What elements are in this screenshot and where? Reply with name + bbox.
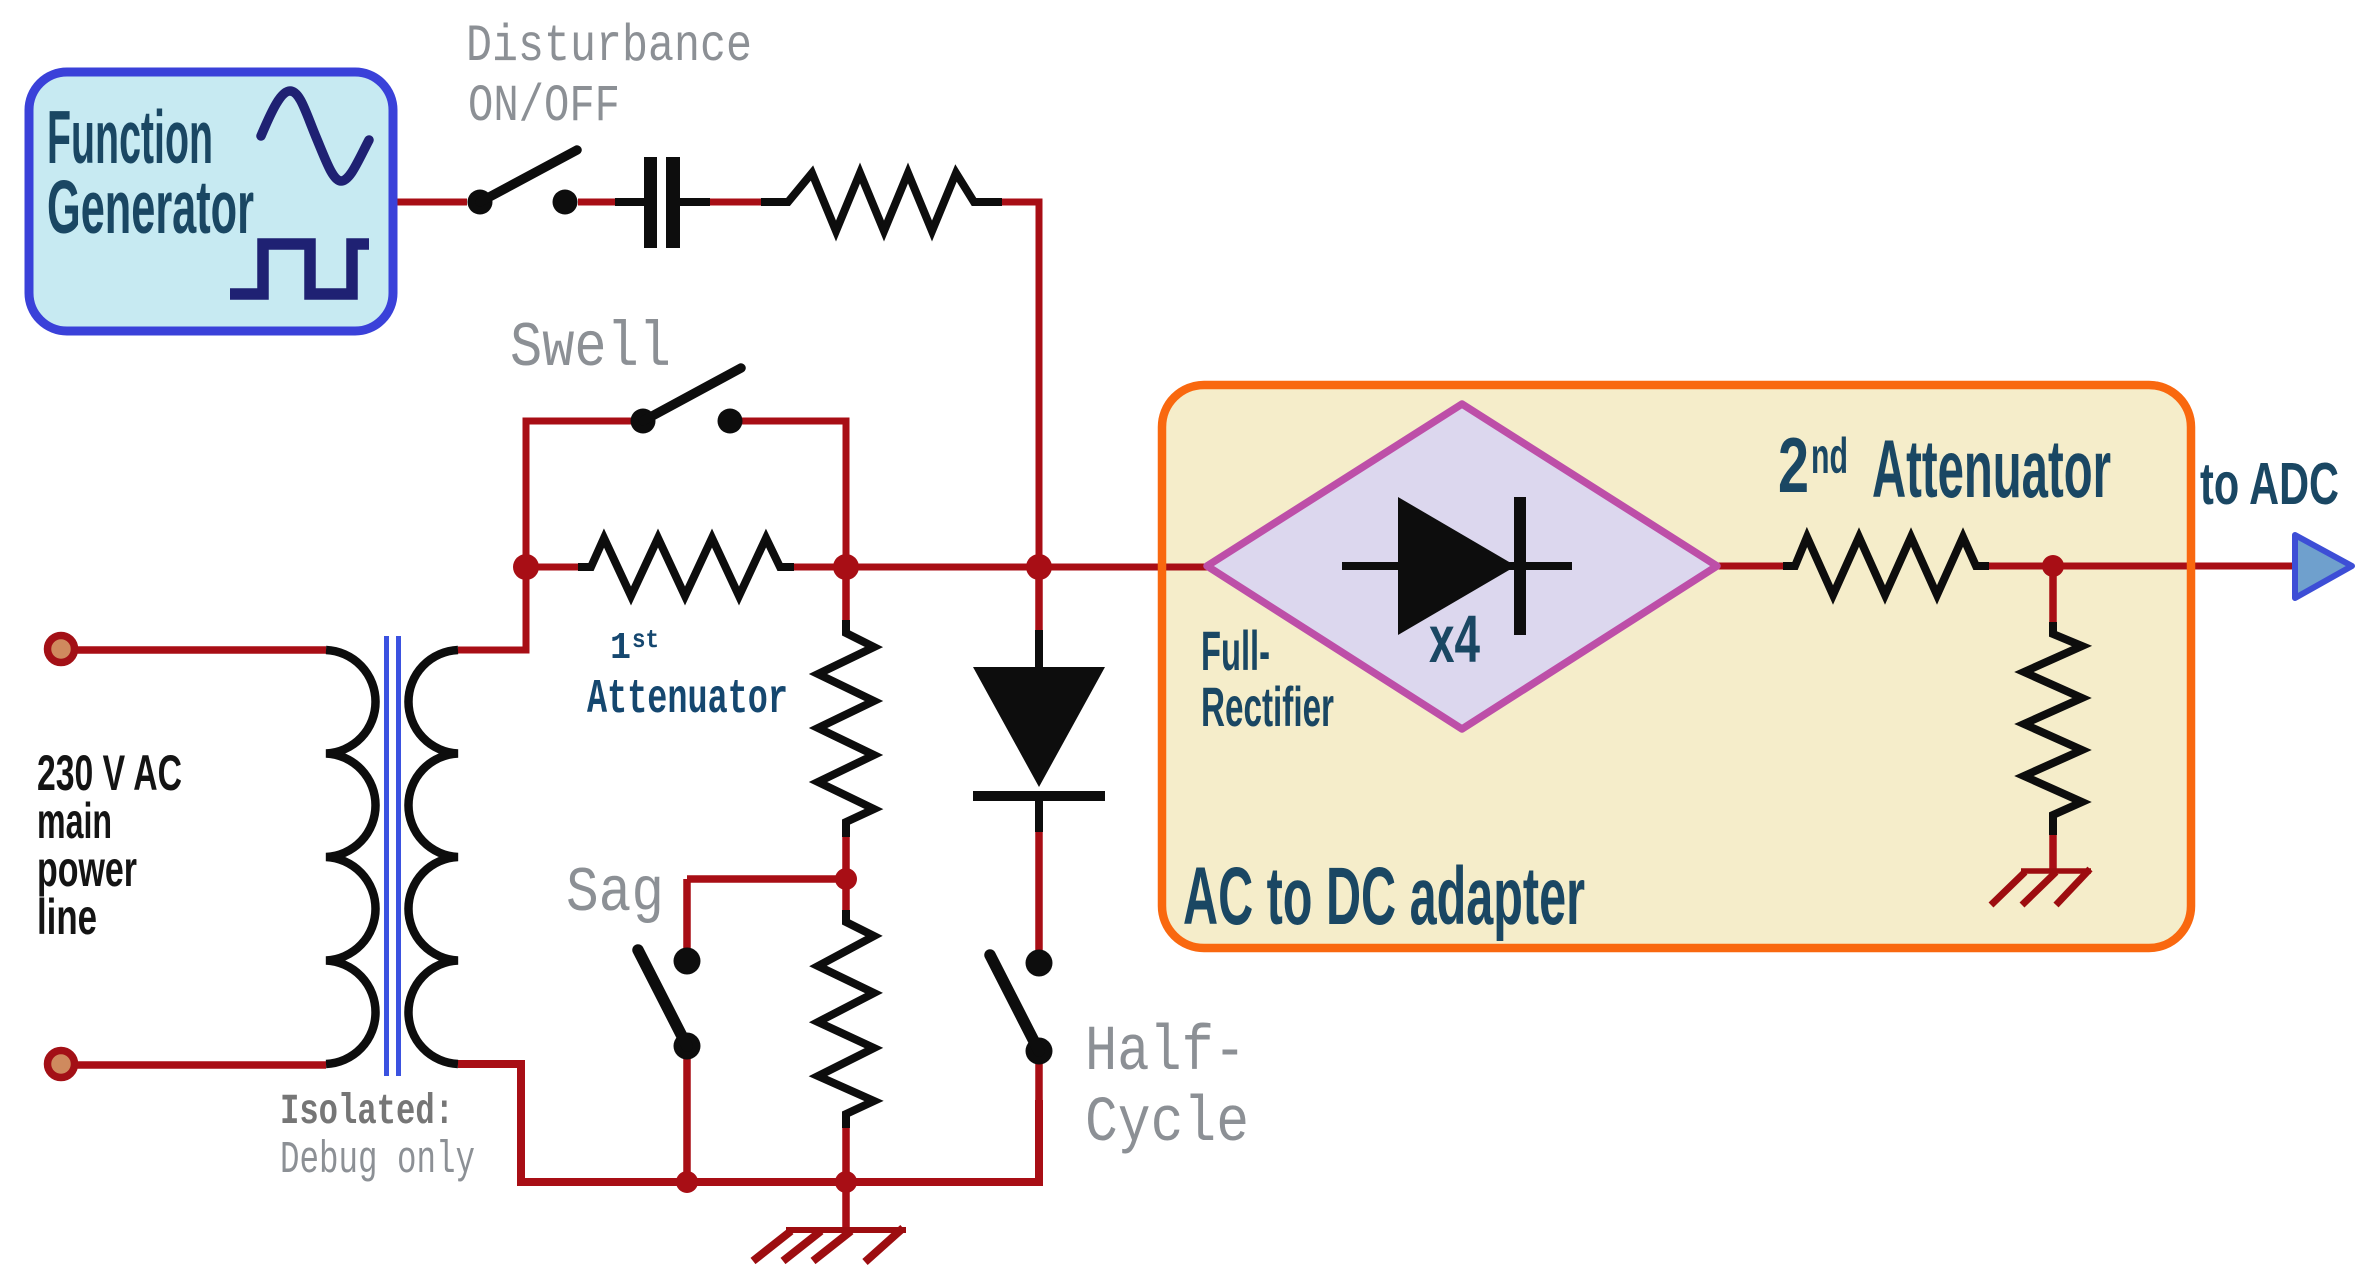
svg-text:Rectifier: Rectifier bbox=[1201, 675, 1334, 738]
svg-text:line: line bbox=[37, 889, 97, 945]
svg-text:nd: nd bbox=[1811, 428, 1848, 484]
svg-text:Swell: Swell bbox=[510, 313, 671, 384]
svg-text:1: 1 bbox=[610, 627, 631, 670]
svg-text:Attenuator: Attenuator bbox=[587, 673, 788, 727]
svg-text:Attenuator: Attenuator bbox=[1872, 424, 2111, 515]
svg-text:Isolated:: Isolated: bbox=[280, 1087, 454, 1136]
svg-text:2: 2 bbox=[1778, 421, 1809, 509]
svg-text:Cycle: Cycle bbox=[1085, 1088, 1249, 1160]
svg-text:Half-: Half- bbox=[1085, 1017, 1246, 1089]
svg-text:st: st bbox=[632, 625, 659, 655]
svg-text:AC to DC adapter: AC to DC adapter bbox=[1183, 851, 1585, 942]
svg-text:Debug only: Debug only bbox=[280, 1135, 475, 1186]
svg-text:Generator: Generator bbox=[47, 165, 254, 249]
svg-text:to ADC: to ADC bbox=[2200, 451, 2339, 517]
svg-text:Sag: Sag bbox=[566, 858, 664, 929]
svg-text:Disturbance: Disturbance bbox=[466, 17, 752, 76]
svg-text:ON/OFF: ON/OFF bbox=[468, 77, 620, 136]
svg-text:Full-: Full- bbox=[1201, 619, 1270, 682]
svg-text:x4: x4 bbox=[1429, 602, 1480, 677]
